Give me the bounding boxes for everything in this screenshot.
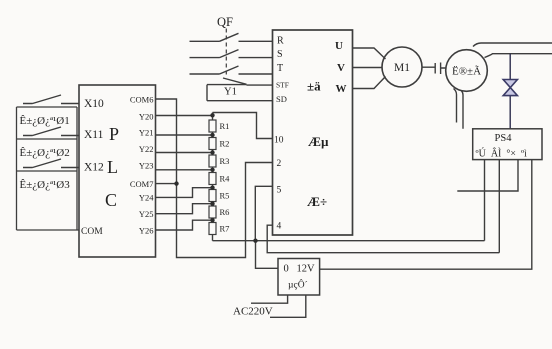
svg-text:Y25: Y25	[139, 209, 154, 219]
pipe upper line	[473, 43, 552, 47]
resistor R2	[209, 138, 216, 150]
svg-text:T: T	[277, 63, 283, 74]
svg-text:C: C	[105, 190, 117, 210]
svg-text:X11: X11	[84, 129, 104, 141]
svg-text:Ê±¿Ø¿ª¹Ø2: Ê±¿Ø¿ª¹Ø2	[20, 147, 70, 159]
svg-text:Y1: Y1	[224, 87, 237, 98]
wire U phase	[353, 48, 386, 59]
svg-text:R2: R2	[220, 139, 230, 149]
motor M1 circle	[382, 47, 422, 87]
switch SW1 (X10)	[23, 95, 79, 104]
svg-text:R4: R4	[220, 174, 231, 184]
junction node R2-R3	[210, 150, 214, 154]
junction node bottom common	[253, 239, 257, 243]
pump circle	[446, 50, 488, 92]
svg-text:PS4: PS4	[495, 133, 513, 144]
wire chain bottom bus	[213, 240, 485, 242]
svg-text:W: W	[336, 83, 347, 95]
svg-text:µçÔ´: µçÔ´	[288, 279, 308, 291]
svg-text:Y24: Y24	[139, 193, 154, 203]
resistor chain vertical wire	[212, 113, 214, 241]
svg-text:COM: COM	[81, 227, 103, 237]
resistor R5	[209, 190, 216, 202]
svg-text:R: R	[277, 36, 284, 47]
wire Y22	[156, 152, 213, 154]
svg-text:10: 10	[274, 136, 284, 146]
wire Y24	[156, 188, 213, 198]
PS4 sensor box	[473, 129, 542, 160]
svg-text:U: U	[335, 40, 343, 52]
svg-text:Ê±¿Ø¿ª¹Ø1: Ê±¿Ø¿ª¹Ø1	[20, 115, 70, 127]
inverter block U1	[273, 30, 353, 235]
svg-text:STF: STF	[276, 81, 289, 90]
svg-text:ºÚ ÂÌ °× ºì: ºÚ ÂÌ °× ºì	[476, 148, 528, 160]
wire Y20	[156, 115, 213, 117]
junction node R5-R6	[210, 202, 214, 206]
svg-text:R7: R7	[220, 224, 230, 234]
resistor R6	[209, 206, 216, 218]
wire Y25	[156, 204, 213, 214]
svg-text:S: S	[277, 49, 283, 60]
resistor R4	[209, 173, 216, 185]
svg-text:V: V	[337, 62, 345, 74]
svg-text:M1: M1	[394, 62, 410, 74]
svg-text:R6: R6	[220, 207, 230, 217]
wire Y21	[156, 134, 213, 136]
breaker QF dashed link	[225, 29, 227, 77]
svg-text:Y21: Y21	[139, 128, 154, 138]
switch box frame left	[17, 107, 80, 230]
svg-text:Y26: Y26	[139, 225, 154, 235]
wire Y26	[156, 220, 213, 230]
wire PS4 pin4 to 12V	[320, 160, 532, 270]
mains line S	[190, 50, 273, 58]
svg-text:R1: R1	[220, 121, 230, 131]
pipe lower line	[485, 54, 552, 58]
svg-text:P: P	[109, 124, 119, 144]
valve symbol	[503, 80, 517, 96]
svg-text:COM7: COM7	[130, 179, 154, 189]
svg-text:Y22: Y22	[139, 144, 154, 154]
mains line R	[190, 33, 273, 41]
wire PS4 pin1 to bottom node	[484, 160, 486, 241]
junction node R6-R7	[210, 218, 214, 222]
wire COM7	[156, 183, 177, 185]
junction node chain top	[210, 113, 214, 117]
junction node R4-R5	[210, 186, 214, 190]
svg-text:QF: QF	[217, 15, 233, 29]
pump suction pipe	[454, 89, 464, 129]
switch SW2 (X11)	[23, 127, 79, 136]
mains line T	[190, 66, 273, 74]
wire AC stub 1	[251, 295, 288, 303]
svg-text:R3: R3	[220, 156, 230, 166]
svg-text:0: 0	[284, 264, 289, 275]
wire inverter pin 5 to bottom node	[255, 186, 272, 240]
wire AC stub 2	[270, 295, 306, 317]
wire COM6 to inverter pin 2	[156, 99, 273, 258]
svg-text:Y20: Y20	[139, 111, 154, 121]
svg-text:2: 2	[277, 159, 282, 169]
svg-text:4: 4	[277, 222, 282, 232]
switch SW3 (X12)	[23, 159, 79, 168]
svg-text:5: 5	[277, 186, 282, 196]
wire node to power 0	[256, 241, 279, 269]
svg-text:R5: R5	[220, 191, 230, 201]
svg-text:Æµ: Æµ	[308, 134, 329, 149]
svg-text:X12: X12	[84, 162, 104, 174]
PLC box	[79, 85, 156, 257]
wire inverter pin 4	[267, 225, 499, 253]
wire chain top to inverter pin 10	[213, 113, 273, 139]
junction node COM7 bus	[174, 181, 178, 185]
svg-text:COM6: COM6	[130, 94, 154, 104]
junction node R1-R2	[210, 133, 214, 137]
svg-text:SD: SD	[276, 94, 287, 104]
svg-text:±ä: ±ä	[307, 79, 321, 94]
svg-text:12V: 12V	[297, 264, 316, 275]
svg-text:Ê±¿Ø¿ª¹Ø3: Ê±¿Ø¿ª¹Ø3	[20, 179, 71, 191]
svg-text:AC220V: AC220V	[233, 306, 273, 318]
svg-text:Y23: Y23	[139, 161, 154, 171]
wire PS4 pin3 dangling	[457, 160, 518, 191]
junction node R3-R4	[210, 168, 214, 172]
svg-text:L: L	[107, 157, 118, 177]
svg-text:X10: X10	[84, 98, 104, 110]
coupling	[422, 63, 446, 75]
wire PS4 pin2	[498, 160, 500, 253]
power supply box	[278, 259, 320, 296]
resistor R3	[209, 155, 216, 167]
resistor R1	[209, 120, 216, 132]
valve drop wire	[509, 54, 511, 129]
resistor R7	[209, 223, 216, 235]
svg-text:Ë®±Ã: Ë®±Ã	[452, 66, 481, 78]
svg-text:Æ÷: Æ÷	[307, 194, 327, 209]
contact Y1 and STF/SD loop	[207, 78, 273, 101]
wire Y23	[156, 169, 213, 171]
wire V phase	[353, 67, 383, 69]
wire W phase	[353, 77, 386, 89]
